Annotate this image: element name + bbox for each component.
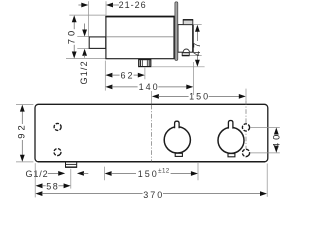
concealed body bottom tab bbox=[182, 53, 189, 56]
extension line outlet centerline bbox=[144, 68, 146, 80]
side view: mixer body bbox=[106, 17, 174, 59]
extension line concealed right edge (for 140) bbox=[192, 62, 194, 95]
port circle lower right bbox=[241, 148, 251, 158]
svg-text:92: 92 bbox=[16, 122, 27, 138]
body bottom edge (thick) bbox=[38, 161, 265, 163]
extension line 150±12 left bbox=[104, 167, 106, 181]
extension line 21-26 left (protrusion face) bbox=[88, 1, 90, 36]
front view: mixer body bbox=[35, 104, 268, 162]
extension line 92-dim top bbox=[16, 104, 33, 106]
dimension 47 bbox=[196, 31, 198, 41]
dimension 92 bbox=[21, 111, 23, 124]
svg-text:62: 62 bbox=[120, 70, 134, 80]
extension line 70-dim top (body top, going left) bbox=[69, 14, 105, 16]
concealed body behind wall bbox=[178, 25, 193, 53]
port circle upper right bbox=[242, 124, 249, 131]
dimension 70 bbox=[73, 21, 75, 29]
body top edge (thick) bbox=[105, 16, 174, 18]
extension line port lower (40-dim) bbox=[250, 152, 279, 154]
outlet nut under body (side view) bbox=[139, 60, 151, 67]
svg-text:±12: ±12 bbox=[158, 167, 170, 174]
svg-text:G1/2: G1/2 bbox=[25, 169, 48, 179]
temperature knob (left) bbox=[164, 127, 190, 153]
dimension 150±12 bbox=[105, 171, 112, 176]
centerline ports (dash-dot) bbox=[245, 100, 247, 158]
dimension 140 bbox=[105, 85, 112, 90]
extension line 47-dim top (concealed body shoulder) bbox=[193, 24, 202, 26]
wall plate pin bbox=[175, 2, 178, 61]
extension line 150±12 right bbox=[197, 163, 199, 180]
svg-text:47: 47 bbox=[191, 40, 202, 56]
concealed body right edge (thick) bbox=[192, 24, 194, 52]
side view: inlet protrusion bbox=[89, 37, 106, 49]
dimension 370 bbox=[35, 191, 42, 196]
extension line port upper (40-dim) bbox=[250, 126, 279, 128]
volume knob (right) bbox=[218, 127, 244, 153]
G1/2 arrows at outlet bbox=[58, 171, 65, 176]
centerline mixer (dash-dot) bbox=[150, 105, 152, 162]
concealed body bottom arc notch bbox=[183, 49, 189, 52]
right knob top nub bbox=[228, 121, 233, 129]
extension line outlet bottom (long) bbox=[151, 66, 204, 68]
outlet nut under body (front view) bbox=[66, 162, 77, 167]
extension line 21-26 right (body left face) bbox=[105, 1, 107, 15]
concealed body top tab bbox=[183, 20, 193, 25]
svg-text:150: 150 bbox=[189, 92, 210, 102]
extension line G1/2 protrusion top bbox=[77, 36, 89, 38]
dimension 58 bbox=[36, 183, 43, 188]
svg-text:40: 40 bbox=[270, 132, 281, 148]
left knob bottom notch bbox=[175, 153, 182, 156]
svg-text:21-26: 21-26 bbox=[119, 0, 147, 10]
svg-text:G1/2: G1/2 bbox=[79, 60, 89, 84]
extension line outlet centerline (front) bbox=[70, 169, 72, 189]
dimension 21-26 bbox=[78, 4, 82, 6]
dimension G1/2 (inlet thread) bbox=[84, 24, 86, 31]
extension line body right (370) bbox=[266, 164, 268, 197]
extension line bottom tab level bbox=[190, 54, 202, 56]
extension line mixer centerline top bbox=[151, 91, 153, 104]
right knob bottom notch bbox=[228, 154, 235, 157]
screw hole lower left bbox=[53, 147, 63, 157]
dimension 62 bbox=[105, 73, 112, 78]
extension line 70-dim bottom (body bottom, going left) bbox=[66, 58, 106, 60]
extension line body left face (for 62/140) bbox=[104, 61, 106, 91]
dimension 40 bbox=[274, 128, 279, 135]
dimension 150 (top) bbox=[152, 94, 159, 99]
extension line body left (58/370) bbox=[34, 163, 36, 197]
screw hole upper left bbox=[54, 123, 61, 130]
left knob top nub bbox=[175, 121, 180, 128]
extension line 92-dim bottom bbox=[16, 161, 33, 163]
svg-text:370: 370 bbox=[143, 190, 164, 200]
extension line G1/2 protrusion bottom bbox=[77, 48, 89, 50]
svg-text:70: 70 bbox=[65, 28, 76, 44]
extension line ports centerline top bbox=[245, 89, 247, 100]
svg-text:58: 58 bbox=[46, 182, 59, 192]
svg-text:150: 150 bbox=[138, 169, 159, 179]
svg-text:140: 140 bbox=[139, 82, 160, 92]
body interior parting line bbox=[107, 36, 174, 38]
